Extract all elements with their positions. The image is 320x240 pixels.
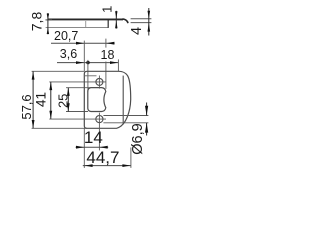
svg-text:44,7: 44,7	[86, 148, 119, 167]
svg-text:18: 18	[101, 48, 115, 62]
svg-text:20,7: 20,7	[54, 29, 78, 43]
svg-text:3,6: 3,6	[60, 47, 77, 61]
svg-text:25: 25	[55, 94, 70, 108]
svg-text:Ø6,9: Ø6,9	[130, 123, 146, 154]
svg-text:41: 41	[33, 92, 48, 107]
svg-text:7,8: 7,8	[28, 12, 44, 32]
svg-text:4: 4	[129, 27, 145, 35]
svg-text:1: 1	[100, 6, 115, 13]
svg-text:14: 14	[84, 128, 103, 147]
svg-text:57,6: 57,6	[19, 94, 34, 119]
